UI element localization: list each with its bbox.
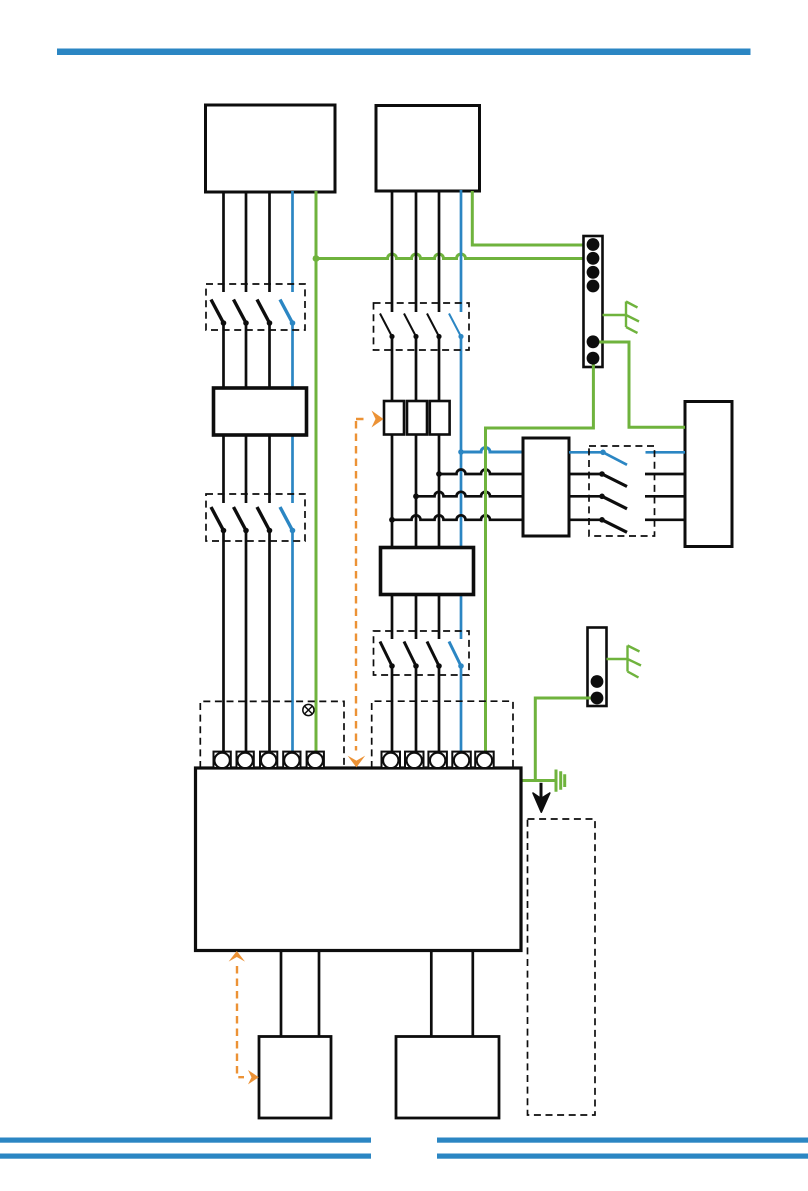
breaker DC1 pole N blade bbox=[280, 300, 293, 324]
wire L3 left string segment C bbox=[268, 531, 271, 754]
SPD box grid column bbox=[381, 548, 474, 595]
enclosure breaker AC2 bbox=[374, 631, 470, 675]
wire L2 tap to meter bbox=[416, 492, 523, 497]
wire L1 meter to switch bbox=[569, 518, 602, 521]
wire L1 grid string segment C bbox=[391, 666, 394, 753]
breaker AC2 pole L1 contact dot bbox=[389, 663, 395, 669]
wire N grid string segment B bbox=[460, 337, 463, 640]
enclosure switch bbox=[589, 446, 655, 536]
wire TB2 pin2 to inverter ground bbox=[535, 698, 597, 781]
terminal AC output 4 bbox=[452, 752, 471, 769]
terminal DC input 1 bbox=[214, 752, 231, 769]
switch pole N dot bbox=[600, 450, 606, 456]
enclosure DC terminals bbox=[200, 701, 344, 768]
switch pole L3 blade bbox=[602, 474, 627, 487]
wire L3 grid string segment A bbox=[438, 190, 441, 312]
wire battery 1 conductor a bbox=[280, 951, 283, 1037]
enclosure breaker AC1 bbox=[374, 303, 470, 350]
breaker DC2 pole L2 contact dot bbox=[243, 528, 249, 534]
breaker AC2 pole N blade bbox=[449, 642, 461, 667]
breaker AC1 pole L3 blade bbox=[427, 314, 439, 337]
breaker DC2 pole L2 blade bbox=[234, 507, 247, 531]
terminal block TB1 bbox=[584, 236, 603, 367]
terminal DC input 3 bbox=[260, 752, 277, 769]
fuse F1 bbox=[384, 401, 404, 435]
wire N tap to meter bbox=[461, 448, 523, 453]
wire L1 grid string segment B bbox=[391, 337, 394, 640]
wire L3 left string segment A bbox=[268, 191, 271, 292]
terminal AC output 1 bbox=[382, 752, 401, 769]
breaker DC1 pole L2 contact dot bbox=[243, 320, 249, 326]
wire N switch to grid bbox=[646, 451, 686, 454]
comm arrow right to fuses bbox=[372, 411, 384, 428]
wire L2 grid string segment A bbox=[415, 190, 418, 312]
wire L1 left string segment A bbox=[222, 191, 225, 292]
breaker DC2 pole L1 contact dot bbox=[221, 528, 227, 534]
wire L3 switch to grid bbox=[645, 473, 685, 476]
wire L3 meter to switch bbox=[569, 473, 602, 476]
wire L3 grid string segment C bbox=[438, 666, 441, 753]
terminal block TB2 bbox=[588, 628, 607, 707]
breaker DC1 pole N contact dot bbox=[290, 320, 296, 326]
terminal TB1 pin5 bbox=[587, 335, 600, 348]
node green junction bbox=[313, 255, 320, 262]
wire L2 switch to grid bbox=[645, 495, 685, 498]
switch pole N blade bbox=[603, 452, 627, 465]
footer bar right upper bbox=[437, 1138, 808, 1143]
ground symbol TB2 bbox=[607, 646, 642, 678]
fuse F2 bbox=[407, 401, 427, 435]
wire L2 left string segment A bbox=[245, 191, 248, 292]
footer bar right lower bbox=[437, 1154, 808, 1159]
terminal AC output 3 bbox=[428, 752, 447, 769]
breaker AC2 pole L3 contact dot bbox=[436, 663, 442, 669]
wire N grid string segment A bbox=[460, 190, 463, 312]
wire L2 meter to switch bbox=[569, 495, 602, 498]
enclosure breaker DC1 bbox=[206, 284, 305, 330]
breaker AC2 pole L2 blade bbox=[404, 642, 416, 667]
wire L2 left string segment B bbox=[245, 323, 248, 503]
breaker DC1 pole L1 blade bbox=[211, 300, 224, 324]
breaker DC2 pole L1 blade bbox=[211, 507, 224, 531]
breaker DC1 pole L1 contact dot bbox=[221, 320, 227, 326]
switch pole L1 dot bbox=[599, 517, 605, 523]
enclosure breaker DC2 bbox=[206, 494, 305, 541]
wire TB1 pin6 to inverter PE bbox=[486, 358, 594, 753]
SPD box left column bbox=[214, 388, 307, 435]
wire PE green from box2 bbox=[472, 191, 591, 245]
wire N left string segment C bbox=[291, 531, 294, 754]
fuse F3 bbox=[430, 401, 450, 435]
breaker AC2 pole L1 blade bbox=[380, 642, 392, 667]
wire L1 switch to grid bbox=[645, 518, 685, 521]
wire L3 grid string segment B bbox=[438, 337, 441, 640]
breaker AC1 pole L2 contact dot bbox=[413, 334, 418, 339]
lamp symbol bbox=[303, 704, 314, 715]
earth symbol inverter bbox=[556, 770, 565, 792]
terminal TB1 pin6 bbox=[587, 352, 600, 365]
breaker DC2 pole N blade bbox=[280, 507, 293, 531]
terminal TB1 pin4 bbox=[587, 280, 600, 293]
node L3 tap junction bbox=[436, 471, 442, 477]
breaker AC1 pole N contact dot bbox=[458, 334, 463, 339]
breaker DC1 pole L2 blade bbox=[234, 300, 247, 324]
breaker DC2 pole L3 blade bbox=[257, 507, 270, 531]
comm line to fuses bbox=[356, 419, 368, 751]
node N tap junction bbox=[458, 449, 464, 455]
wire battery 2 conductor b bbox=[471, 951, 474, 1037]
switch pole L1 blade bbox=[602, 520, 627, 533]
comm arrow up to inverter bbox=[229, 951, 245, 962]
wire PE green horizontal to terminal block bbox=[316, 254, 591, 258]
terminal DC input 2 bbox=[237, 752, 254, 769]
switch pole L2 dot bbox=[599, 494, 605, 500]
wire L2 grid string segment C bbox=[415, 666, 418, 753]
comm arrow right to battery bbox=[248, 1070, 259, 1084]
footer bar left upper bbox=[0, 1138, 371, 1143]
node L1 tap junction bbox=[389, 517, 395, 523]
breaker DC2 pole L3 contact dot bbox=[267, 528, 273, 534]
breaker DC1 pole L3 contact dot bbox=[267, 320, 273, 326]
grid connection box bbox=[685, 402, 732, 547]
wire L3 left string segment B bbox=[268, 323, 271, 503]
terminal DC input 4 bbox=[283, 752, 300, 769]
wire L1 tap to meter bbox=[392, 515, 523, 520]
breaker AC2 pole L2 contact dot bbox=[413, 663, 419, 669]
terminal TB1 pin1 bbox=[587, 238, 600, 251]
terminal DC input 5 bbox=[307, 752, 324, 769]
wire N left string segment A bbox=[291, 191, 294, 292]
battery box 1 bbox=[259, 1037, 331, 1119]
terminal AC output 2 bbox=[405, 752, 424, 769]
breaker AC1 pole L1 blade bbox=[380, 314, 392, 337]
wire TB1 pin5 to grid box bbox=[598, 342, 685, 427]
breaker DC1 pole L3 blade bbox=[257, 300, 270, 324]
wire L1 left string segment B bbox=[222, 323, 225, 503]
PV array box 2 bbox=[376, 106, 480, 192]
enclosure load box bbox=[528, 819, 596, 1115]
wire L3 tap to meter bbox=[439, 470, 523, 475]
breaker AC2 pole N contact dot bbox=[458, 663, 464, 669]
wire L1 left string segment C bbox=[222, 531, 225, 754]
terminal TB1 pin2 bbox=[587, 252, 600, 265]
terminal TB1 pin3 bbox=[587, 266, 600, 279]
header bar bbox=[57, 49, 751, 56]
breaker AC1 pole L1 contact dot bbox=[389, 334, 394, 339]
battery box 2 bbox=[396, 1037, 499, 1119]
comm line inverter to battery bbox=[237, 966, 244, 1077]
enclosure AC terminals bbox=[372, 701, 513, 768]
wire inverter ground bbox=[521, 779, 556, 782]
wire N grid string segment C bbox=[460, 666, 463, 753]
node L2 tap junction bbox=[413, 493, 419, 499]
terminal TB2 pin1 bbox=[591, 675, 604, 688]
terminal TB2 pin2 bbox=[591, 692, 604, 705]
breaker AC1 pole L2 blade bbox=[404, 314, 416, 337]
inverter box bbox=[196, 768, 522, 951]
wire L2 grid string segment B bbox=[415, 337, 418, 640]
terminal AC output 5 bbox=[475, 752, 494, 769]
wire battery 1 conductor b bbox=[318, 951, 321, 1037]
breaker AC2 pole L3 blade bbox=[427, 642, 439, 667]
switch pole L2 blade bbox=[602, 496, 627, 509]
breaker AC1 pole N blade bbox=[449, 314, 461, 337]
footer bar left lower bbox=[0, 1154, 371, 1159]
switch pole L3 dot bbox=[599, 471, 605, 477]
wire battery 2 conductor a bbox=[430, 951, 433, 1037]
PV array box 1 bbox=[206, 105, 336, 192]
wire L1 grid string segment A bbox=[391, 190, 394, 312]
wire N left string segment B bbox=[291, 323, 294, 503]
wire L2 left string segment C bbox=[245, 531, 248, 754]
arrow to load dashed box bbox=[533, 783, 550, 812]
energy meter box bbox=[523, 438, 569, 536]
wire PE green from box1 bbox=[315, 191, 318, 753]
ground symbol TB1 bbox=[603, 302, 640, 334]
comm arrow down to inverter bbox=[348, 756, 366, 768]
wire N meter to switch bbox=[569, 451, 603, 454]
breaker AC1 pole L3 contact dot bbox=[436, 334, 441, 339]
breaker DC2 pole N contact dot bbox=[290, 528, 296, 534]
